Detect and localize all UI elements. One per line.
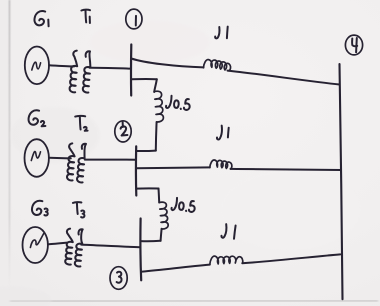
label T1 xyxy=(81,10,90,23)
label j1 (line 2-4) xyxy=(217,126,229,140)
wire T3 to bus 3 xyxy=(81,245,140,248)
left scan margin strip xyxy=(0,0,9,306)
generator G3 xyxy=(23,227,48,263)
branch 1-2 top wire xyxy=(131,78,157,80)
bus label 3 circle xyxy=(110,267,127,290)
wire T2 to bus 2 xyxy=(85,159,136,161)
branch 1-2 lower drop xyxy=(155,122,158,151)
line 3-4 left segment xyxy=(142,265,210,272)
label G3 xyxy=(32,201,48,216)
inductor j1 (line 2-4) xyxy=(210,160,232,169)
line 2-4 right segment xyxy=(231,169,342,170)
wire G2 to T2 xyxy=(49,157,71,160)
left crease line xyxy=(9,0,11,290)
G3 ~ symbol xyxy=(30,234,43,248)
inductor j0.5 (1-2) xyxy=(154,91,163,122)
bottom scan shadow line xyxy=(10,300,378,303)
inductor j1 (line 3-4) xyxy=(210,256,243,265)
line 3-4 right segment xyxy=(242,254,340,263)
inductor j1 (line 1-4) xyxy=(204,60,231,71)
wire T1 to bus 1 xyxy=(90,67,131,70)
bus label 1 circle xyxy=(126,9,142,29)
branch 2-3 drop xyxy=(158,189,161,203)
G1 ~ symbol xyxy=(32,62,41,70)
label j0.5 (1-2) xyxy=(166,95,191,110)
G2 ~ symbol xyxy=(31,152,40,161)
label j1 (line 3-4) xyxy=(221,224,235,239)
inductor j0.5 (2-3) xyxy=(159,202,168,229)
wire G1 to T1 xyxy=(49,65,74,66)
label G1 xyxy=(34,11,48,26)
wire G3 to T3 xyxy=(48,243,68,245)
label T3 xyxy=(73,202,85,217)
bus label 4 circle xyxy=(345,35,362,55)
transformer T3 xyxy=(65,229,82,267)
branch 1-2 bottom wire to bus 2 xyxy=(136,150,156,152)
line 1-4 left segment xyxy=(131,59,203,68)
bus 2 xyxy=(135,146,138,195)
line 1-4 right segment xyxy=(228,71,340,85)
branch 2-3 bottom wire to bus 3 xyxy=(141,240,161,242)
bus 4 xyxy=(340,64,343,299)
label j0.5 (2-3) xyxy=(171,197,195,212)
faint stain blobs xyxy=(90,20,210,64)
branch 1-2 drop xyxy=(154,79,157,92)
branch 2-3 top wire xyxy=(136,187,158,189)
branch 2-3 lower drop xyxy=(161,229,162,241)
bus 1 xyxy=(130,45,132,96)
bus 3 xyxy=(139,219,142,281)
label G2 xyxy=(29,110,46,126)
label j1 (line 1-4) xyxy=(215,27,228,39)
line 2-4 left segment xyxy=(136,166,210,169)
generator G2 xyxy=(25,139,49,177)
transformer T2 xyxy=(67,143,86,182)
generator G1 xyxy=(25,47,49,85)
bottom-left darker patch xyxy=(0,286,52,306)
transformer T1 xyxy=(70,51,91,93)
label T2 xyxy=(75,116,87,131)
bus label 2 circle xyxy=(115,121,131,142)
